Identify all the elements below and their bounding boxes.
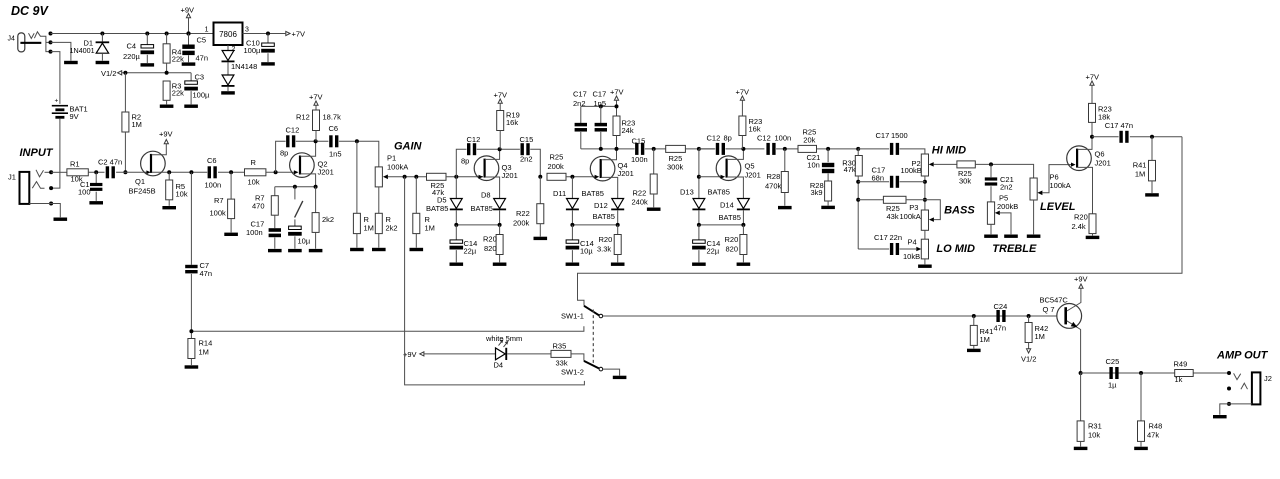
capacitor C2 47n	[98, 158, 122, 179]
junction R42	[1027, 314, 1031, 318]
ground R 2k2 gain	[372, 248, 386, 251]
capacitor C17 100n Q2	[246, 220, 281, 238]
resistor R35 33k	[551, 342, 571, 368]
ground C14 Q3	[450, 263, 464, 266]
ground R20 2.4k	[1086, 236, 1100, 239]
junction bus D13	[697, 223, 701, 227]
junction R22 240k	[652, 147, 656, 151]
svg-text:C25: C25	[1106, 357, 1120, 366]
svg-text:10n: 10n	[807, 160, 820, 169]
wire +7V Q4 down	[616, 100, 618, 116]
svg-text:C6: C6	[207, 156, 217, 165]
junction rail C4	[145, 32, 149, 36]
svg-text:100n: 100n	[205, 181, 222, 190]
svg-text:2k2: 2k2	[322, 215, 334, 224]
svg-text:10k: 10k	[248, 178, 260, 187]
wire J2 sleeve	[1220, 404, 1229, 415]
junction rail R4	[165, 32, 169, 36]
capacitor C12 8p Q3	[461, 135, 480, 165]
wire R35 to SW1-2	[571, 354, 584, 361]
wire bus to C14 22u Q5	[698, 225, 700, 240]
wire R7 470 to C17 100n	[274, 215, 276, 228]
svg-text:J2: J2	[1264, 374, 1272, 383]
junction emitter node	[1079, 371, 1083, 375]
LED D4 white 5mm	[485, 334, 522, 370]
ground SW1-2	[613, 376, 627, 379]
svg-text:2k2: 2k2	[386, 224, 398, 233]
svg-text:R20: R20	[599, 235, 613, 244]
svg-text:LEVEL: LEVEL	[1040, 201, 1076, 213]
svg-text:100n: 100n	[775, 134, 792, 143]
junction J2 tip	[1227, 371, 1231, 375]
wire J4 pin2 to ground	[51, 42, 71, 60]
junction Q6 drain node	[1090, 135, 1094, 139]
svg-text:C4: C4	[127, 42, 137, 51]
resistor R 10k interstage	[245, 158, 266, 187]
resistor R3 22k	[163, 81, 184, 100]
resistor R41 1M out	[1133, 160, 1156, 181]
wire switch to 10u	[294, 219, 296, 226]
diode D13 BAT85	[680, 188, 730, 211]
wire R12 to drain	[315, 131, 317, 142]
wire R41 ground	[1151, 181, 1153, 193]
wire R5 to ground	[168, 200, 170, 206]
svg-text:2: 2	[232, 46, 236, 53]
svg-text:100k: 100k	[210, 209, 227, 218]
resistor R20 820 Q5	[725, 235, 747, 255]
resistor R25 43k	[883, 196, 906, 221]
ground P5	[984, 235, 998, 238]
transistor Q5 J201	[716, 156, 761, 181]
junction Q2 gate node	[274, 170, 278, 174]
svg-text:V1/2: V1/2	[101, 69, 116, 78]
svg-text:BAT85: BAT85	[471, 204, 493, 213]
svg-text:1k: 1k	[1175, 375, 1183, 384]
svg-text:7806: 7806	[219, 30, 237, 39]
svg-text:470k: 470k	[765, 182, 782, 191]
wire gain tap down	[405, 177, 585, 385]
junction C21 2n2	[989, 162, 993, 166]
wire C3 to ground	[190, 91, 192, 104]
svg-text:1M: 1M	[425, 224, 435, 233]
resistor R28 3k9	[810, 181, 832, 201]
resistor R25 20k	[798, 128, 817, 153]
svg-text:AMP OUT: AMP OUT	[1216, 349, 1269, 361]
svg-text:22k: 22k	[172, 55, 184, 64]
ground P4	[918, 265, 932, 268]
svg-text:D8: D8	[481, 191, 491, 200]
svg-text:C6: C6	[329, 124, 339, 133]
svg-text:47n: 47n	[1121, 121, 1134, 130]
svg-text:R: R	[251, 158, 257, 167]
wire Q7 emitter	[1067, 321, 1081, 373]
svg-text:BF245B: BF245B	[129, 187, 156, 196]
svg-text:C12: C12	[286, 126, 300, 135]
resistor R 1M gain top	[353, 213, 374, 233]
wire C10 to ground	[267, 53, 269, 62]
net +9V rail	[181, 6, 195, 34]
battery BAT1 9V	[52, 98, 88, 122]
resistor R2 1M	[122, 112, 142, 132]
wire R2 top	[124, 73, 126, 112]
wire D3 to ground	[227, 87, 229, 91]
resistor R25 30k	[957, 161, 975, 186]
wire rail to R4	[166, 34, 168, 44]
wire LED to R35	[507, 353, 551, 355]
wire C6 to R	[218, 171, 245, 173]
svg-text:J201: J201	[1095, 159, 1111, 168]
wire V1/2 to C3	[190, 73, 192, 81]
svg-text:200k: 200k	[548, 162, 565, 171]
capacitor C4 220u	[123, 42, 154, 62]
svg-text:GAIN: GAIN	[394, 140, 423, 152]
svg-text:SW1-1: SW1-1	[561, 312, 584, 321]
wire P5 bottom ground	[990, 224, 992, 234]
potentiometer P4 10kB	[903, 238, 929, 262]
pin 2 label	[232, 46, 236, 53]
ground J4 pin2	[64, 61, 78, 64]
svg-text:2.4k: 2.4k	[1072, 222, 1086, 231]
wire C17 2n2 bottom	[580, 132, 582, 149]
wire P4 bottom ground	[924, 259, 926, 264]
junction bus D14	[741, 223, 745, 227]
wire P1 wiper line	[388, 176, 427, 178]
svg-text:100: 100	[78, 188, 91, 197]
resistor R 1M wiper	[413, 213, 435, 233]
wire R25 20k out	[817, 148, 859, 150]
svg-text:1µ: 1µ	[1108, 381, 1117, 390]
wire to R48	[1140, 373, 1142, 421]
capacitor C25 1u	[1106, 357, 1120, 390]
svg-text:D12: D12	[594, 201, 608, 210]
svg-text:R25: R25	[550, 153, 564, 162]
svg-text:100kA: 100kA	[1050, 181, 1071, 190]
wire P2 bottom	[924, 176, 926, 210]
ground C14 Q5	[692, 263, 706, 266]
svg-text:3.3k: 3.3k	[597, 245, 611, 254]
svg-text:R48: R48	[1149, 422, 1163, 431]
ground C5	[182, 62, 196, 65]
svg-text:C12: C12	[707, 134, 721, 143]
resistor R31 10k	[1077, 421, 1102, 442]
svg-text:100kA: 100kA	[900, 212, 921, 221]
junction R25 43k node	[856, 198, 860, 202]
potentiometer P5 200kB	[987, 194, 1018, 225]
resistor 2k2 Q2	[312, 213, 334, 233]
wire to R42	[1028, 316, 1030, 323]
svg-text:470: 470	[252, 202, 265, 211]
wire C17 100n to ground	[274, 237, 276, 248]
junction C17 1n5 top	[599, 104, 603, 108]
svg-text:16k: 16k	[749, 125, 761, 134]
svg-text:C17: C17	[573, 90, 587, 99]
wire C17 47n out	[1130, 136, 1182, 138]
wire R 1M wiper ground	[415, 234, 417, 248]
svg-text:J201: J201	[502, 171, 518, 180]
svg-text:R20: R20	[1074, 213, 1088, 222]
svg-text:R41: R41	[1133, 161, 1147, 170]
resistor R7 470	[252, 194, 278, 216]
junction R28 470k	[783, 147, 787, 151]
ground R7 100k	[224, 233, 238, 236]
wire Q3 source	[485, 177, 500, 199]
svg-text:J201: J201	[318, 168, 334, 177]
wire Q4 top line	[581, 105, 617, 107]
ground P6	[1027, 235, 1041, 238]
wiper P2	[929, 162, 934, 167]
wire C12 100n out	[776, 148, 798, 150]
wire P6 wiper to Q6	[1042, 165, 1072, 193]
junction P2 bottom C17 68n	[923, 180, 927, 184]
net +7V Q4	[610, 88, 624, 101]
wire +7V to R12	[315, 105, 317, 110]
svg-text:R22: R22	[633, 189, 647, 198]
label INPUT	[20, 147, 54, 159]
potentiometer P3 100kA	[900, 203, 929, 231]
capacitor C12 8p Q5	[707, 134, 732, 155]
svg-text:J201: J201	[618, 169, 634, 178]
capacitor C17 68n	[872, 166, 900, 188]
wire R42 to V1/2	[1028, 343, 1030, 349]
net +7V Q5	[736, 88, 750, 101]
svg-text:P1: P1	[387, 154, 396, 163]
svg-text:BASS: BASS	[944, 205, 975, 217]
transistor Q4 J201	[590, 156, 633, 181]
wiper P1	[383, 175, 388, 180]
ground R20 Q5	[737, 263, 751, 266]
wire C17 22n to P4	[900, 248, 917, 250]
wire bus to R20 3.3k	[617, 225, 619, 235]
label DC 9V	[11, 4, 49, 18]
capacitor C14 22u Q5	[692, 239, 720, 256]
wire R25 43k to chain	[906, 199, 925, 201]
wire Q1 drain	[152, 144, 167, 155]
wire to R22 240k	[653, 149, 655, 174]
wiper P5	[995, 211, 1000, 216]
wire R25 43k line	[858, 199, 883, 201]
ground 2k2	[309, 249, 323, 252]
capacitor C6 100n	[205, 156, 222, 190]
svg-text:2n2: 2n2	[573, 99, 586, 108]
wire R25 300k to Q5 node	[685, 148, 714, 150]
wire R28 3k9 ground	[827, 201, 829, 206]
wire Q3 diode bus	[456, 224, 499, 226]
ground R20 Q4	[611, 263, 625, 266]
ground R20 Q3	[493, 263, 507, 266]
junction C17 68n node	[856, 180, 860, 184]
net +9V LED	[403, 350, 424, 359]
capacitor C14 22u Q3	[450, 239, 478, 256]
wire R19 to drain	[499, 131, 501, 150]
svg-text:BAT85: BAT85	[708, 188, 730, 197]
svg-text:V1/2: V1/2	[1021, 355, 1036, 364]
wire R2 bottom	[124, 132, 126, 172]
junction rail C5	[187, 32, 191, 36]
svg-text:C15: C15	[520, 135, 534, 144]
ground R5	[162, 206, 176, 209]
svg-text:47n: 47n	[200, 269, 213, 278]
wire C2 to Q1 gate	[116, 171, 149, 173]
svg-text:16k: 16k	[506, 118, 518, 127]
svg-text:2n2: 2n2	[1000, 183, 1013, 192]
svg-text:1M: 1M	[1135, 169, 1145, 178]
svg-text:47n: 47n	[196, 54, 209, 63]
regulator U1 7806	[205, 23, 249, 46]
ground J2	[1213, 415, 1227, 418]
ground 7806 diodes	[221, 91, 235, 94]
transistor Q2 J201	[290, 153, 334, 178]
svg-text:R35: R35	[553, 342, 567, 351]
wire R28 470k ground	[784, 193, 786, 206]
svg-text:100kA: 100kA	[387, 163, 408, 172]
junction R41 bottom line	[972, 314, 976, 318]
resistor R20 820 Q3	[483, 235, 503, 255]
junction C21 10n	[826, 147, 830, 151]
wire C17 68n to chain	[900, 181, 925, 183]
wire drain to C17 47n	[1092, 136, 1119, 138]
svg-text:1M: 1M	[199, 348, 209, 357]
svg-text:J4: J4	[8, 36, 16, 43]
wire C17 1500 to P2	[900, 149, 925, 154]
diode D2 1N4148	[222, 51, 235, 63]
capacitor C3 100u	[184, 73, 210, 100]
junction Q2 drain node	[314, 139, 318, 143]
svg-text:BC547C: BC547C	[1040, 296, 1069, 305]
svg-text:+9V: +9V	[1074, 275, 1088, 284]
wire D13 to bus	[698, 210, 700, 225]
wire to R22 200k	[539, 177, 541, 204]
svg-text:P4: P4	[908, 238, 917, 247]
svg-text:D11: D11	[553, 189, 566, 198]
connector J4 DC jack	[8, 32, 51, 52]
wire R20 3.3k ground	[617, 255, 619, 263]
svg-text:24k: 24k	[622, 126, 634, 135]
ground R48	[1134, 447, 1148, 450]
wire P1 bottom	[378, 187, 380, 213]
svg-text:+9V: +9V	[159, 130, 173, 139]
svg-text:1M: 1M	[980, 335, 990, 344]
svg-text:47k: 47k	[1147, 431, 1159, 440]
wire out loop	[578, 137, 1183, 306]
svg-text:D14: D14	[720, 201, 734, 210]
wire R20 2.4k ground	[1092, 234, 1094, 236]
svg-text:10µ: 10µ	[298, 237, 311, 246]
wire C12 Q5 wires	[699, 148, 715, 150]
svg-text:C17: C17	[593, 90, 607, 99]
svg-text:18.7k: 18.7k	[323, 113, 342, 122]
net +7V Q2	[309, 93, 323, 106]
wire D2 to D3	[227, 62, 229, 75]
wiper P6	[1037, 191, 1042, 196]
wire Q5 gate vertical	[698, 149, 700, 199]
svg-text:9V: 9V	[70, 112, 79, 121]
resistor R7 100k	[210, 196, 235, 219]
svg-text:200kB: 200kB	[997, 202, 1018, 211]
ground C10	[261, 62, 275, 65]
junction wiper down	[403, 175, 407, 179]
ground R3	[160, 105, 174, 108]
label GAIN	[394, 140, 423, 152]
junction R41 top	[1150, 135, 1154, 139]
svg-text:R31: R31	[1088, 422, 1102, 431]
resistor R25 300k	[666, 145, 686, 171]
wire C17 68n line	[858, 181, 889, 183]
net V1/2 R42	[1021, 349, 1036, 364]
wire C17 1n5 bottom	[600, 132, 602, 149]
label BASS	[944, 205, 975, 217]
ground D1	[96, 61, 110, 64]
wire R7 100k to ground	[230, 219, 232, 233]
wire Q5 gate line	[699, 176, 723, 178]
wire R4 to V1/2	[166, 63, 168, 73]
wire bus to R7 470	[274, 187, 276, 196]
svg-text:R20: R20	[483, 235, 497, 244]
svg-text:22µ: 22µ	[707, 247, 720, 256]
wire bus to C14 10u	[571, 225, 573, 240]
emitter arrow Q7	[1071, 322, 1078, 328]
junction R30 top	[856, 147, 860, 151]
wire P3 wiper hook	[925, 200, 940, 220]
svg-text:+: +	[55, 98, 59, 105]
net +7V main	[286, 30, 305, 39]
wire P3 to P4	[924, 230, 926, 239]
wire to R7 100k	[230, 172, 232, 199]
wire D5 to bus	[455, 210, 457, 225]
svg-text:2n2: 2n2	[520, 155, 533, 164]
capacitor C15 2n2	[520, 135, 534, 163]
svg-text:100kB: 100kB	[901, 166, 922, 175]
ground C3	[184, 105, 198, 108]
svg-text:BAT85: BAT85	[593, 212, 615, 221]
wire to R31	[1080, 373, 1082, 421]
junction D11 node	[570, 175, 574, 179]
wire D12 to bus	[617, 210, 619, 225]
wire emitter line	[1081, 372, 1229, 374]
connector J2 jack	[1234, 372, 1272, 404]
wire to R41 1M sw	[973, 316, 975, 325]
junction bus 2k2	[314, 185, 318, 189]
ground C1	[89, 201, 103, 204]
net +9V Q7	[1074, 275, 1088, 289]
svg-text:10kB: 10kB	[903, 252, 920, 261]
label LEVEL	[1040, 201, 1076, 213]
svg-text:J1: J1	[8, 173, 16, 182]
svg-text:Q5: Q5	[745, 162, 755, 171]
diode D12 BAT85	[593, 199, 625, 222]
resistor R12 18.7k	[296, 110, 341, 131]
resistor R25 200k	[547, 153, 566, 181]
label HI MID	[932, 145, 966, 157]
gate arrow Q5	[721, 175, 726, 179]
junction R2 gate line	[123, 170, 127, 174]
svg-text:1M: 1M	[1035, 332, 1045, 341]
wire R 2k2 to ground	[378, 234, 380, 248]
wire R25 200k to Q4	[566, 176, 596, 178]
wire to R5	[168, 172, 170, 180]
resistor R41 1M sw	[970, 325, 993, 345]
ground P5 wiper	[1004, 235, 1018, 238]
resistor R23 18k	[1089, 103, 1112, 122]
svg-text:10µ: 10µ	[580, 247, 593, 256]
resistor R20 2.4k	[1072, 213, 1097, 234]
junction drain R23	[615, 147, 619, 151]
capacitor 10u Q2 boost	[288, 226, 311, 245]
junction J4 pin1	[49, 32, 53, 36]
ground 10u	[288, 249, 302, 252]
wire C5 to ground	[188, 55, 190, 62]
junction R22 200k node	[538, 175, 542, 179]
resistor R23 24k	[613, 116, 635, 136]
